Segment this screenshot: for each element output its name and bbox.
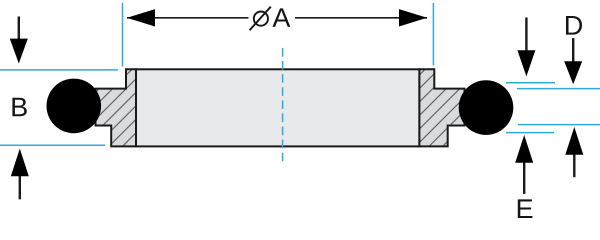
dimension arrow E left (up) [515, 135, 533, 194]
extension line right (cyan, for dimension A) [432, 3, 434, 66]
body: right hatched end section [419, 69, 464, 146]
centerline (vertical dashed cyan) [282, 48, 284, 164]
dimension arrow B top (down) [10, 17, 28, 64]
dimension arrow B bottom (up) [11, 149, 29, 200]
dimension arrow E right (up) [565, 127, 583, 177]
datum line E long (cyan, shoulder level) [518, 124, 600, 126]
extension line left (cyan, for dimension A) [122, 3, 124, 67]
datum line E short (cyan, o-ring bottom tangent) [506, 132, 554, 134]
label A [272, 8, 290, 27]
label E [518, 199, 533, 218]
label diameter symbol of A [250, 7, 271, 31]
dimension line A with outward arrowheads [127, 9, 427, 26]
o-ring right (cross-section) [459, 80, 514, 135]
dimension arrow D left (down) [517, 18, 535, 77]
datum line B top (cyan) [0, 69, 118, 71]
body: plain inner section of centering ring [136, 69, 419, 146]
datum line B bottom (cyan) [0, 144, 105, 146]
label D [566, 16, 582, 35]
datum line D short (cyan, o-ring top tangent) [506, 82, 555, 84]
label B [12, 98, 26, 117]
dimension arrow D right (down) [564, 38, 582, 84]
datum line D long (cyan, shoulder level) [517, 88, 600, 90]
body: left hatched end section [96, 69, 137, 146]
o-ring left (cross-section) [47, 79, 102, 134]
